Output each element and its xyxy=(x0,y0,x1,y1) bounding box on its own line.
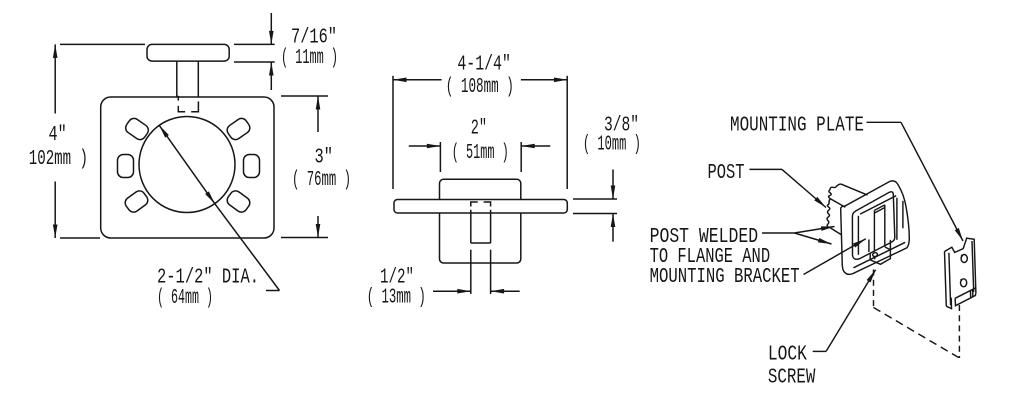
svg-text:102mm ): 102mm ) xyxy=(29,148,88,171)
svg-text:MOUNTING PLATE: MOUNTING PLATE xyxy=(730,115,864,138)
svg-text:( 11mm ): ( 11mm ) xyxy=(281,47,338,70)
svg-text:( 64mm ): ( 64mm ) xyxy=(157,287,213,310)
svg-text:LOCK: LOCK xyxy=(768,344,807,367)
svg-text:( 108mm ): ( 108mm ) xyxy=(446,76,514,99)
svg-text:MOUNTING BRACKET: MOUNTING BRACKET xyxy=(650,266,800,289)
svg-text:( 10mm ): ( 10mm ) xyxy=(583,134,641,157)
svg-text:( 51mm ): ( 51mm ) xyxy=(452,142,509,165)
svg-text:4-1/4": 4-1/4" xyxy=(457,54,511,77)
svg-text:3": 3" xyxy=(315,147,334,170)
svg-text:SCREW: SCREW xyxy=(768,367,816,390)
svg-text:4": 4" xyxy=(49,124,67,147)
svg-text:( 13mm ): ( 13mm ) xyxy=(367,287,426,310)
svg-text:( 76mm ): ( 76mm ) xyxy=(292,169,351,192)
svg-text:2": 2" xyxy=(471,118,487,141)
svg-text:POST: POST xyxy=(708,162,745,185)
